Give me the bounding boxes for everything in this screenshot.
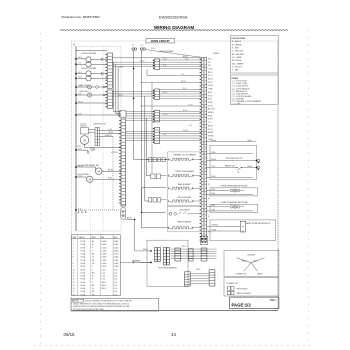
svg-text:5-1605: 5-1605 xyxy=(102,241,107,243)
cooling fan wires xyxy=(76,166,95,168)
pin labels of relay board connector xyxy=(208,58,216,140)
svg-text:5-1605: 5-1605 xyxy=(102,254,107,256)
svg-text:USE ALL WIRES PRIOR TO DISCONN: USE ALL WIRES PRIOR TO DISCONNECTION WHE… xyxy=(73,302,130,305)
svg-text:BR CF: BR CF xyxy=(208,72,213,74)
svg-text:5-1-4: 5-1-4 xyxy=(114,272,118,274)
svg-text:WIRING SHOWN FOR OVENS EQUIPPE: WIRING SHOWN FOR OVENS EQUIPPED AS VIEWE… xyxy=(73,305,130,308)
switch row S1 thermal cutouts xyxy=(146,158,167,162)
svg-text:W N2: W N2 xyxy=(208,99,212,101)
svg-text:GAUGE: GAUGE xyxy=(79,236,84,239)
wire node y115 xyxy=(76,114,121,116)
wires bus to M1 xyxy=(76,58,86,60)
svg-text:W-46: W-46 xyxy=(212,176,216,178)
svg-text:BK-52: BK-52 xyxy=(196,269,201,271)
svg-text:CODES: CODES xyxy=(231,78,238,80)
svg-text:BK-46: BK-46 xyxy=(212,140,217,142)
svg-text:T-46: T-46 xyxy=(212,166,215,168)
ground symbol door motor xyxy=(87,150,89,154)
door motor bottom wire xyxy=(84,144,86,147)
note box xyxy=(71,298,159,311)
svg-text:BK L1: BK L1 xyxy=(208,58,212,60)
svg-text:GY BR: GY BR xyxy=(208,105,214,107)
svg-text:BK-10: BK-10 xyxy=(119,67,123,69)
cooling fan motor M4 xyxy=(95,168,102,175)
connector P4 seg1 xyxy=(153,59,160,69)
page cut dashed border bottom xyxy=(34,345,313,347)
svg-text:GY/BK-10: GY/BK-10 xyxy=(105,135,112,137)
svg-text:OR-10: OR-10 xyxy=(163,114,168,116)
svg-text:5-1605: 5-1605 xyxy=(114,250,119,252)
svg-text:06/16: 06/16 xyxy=(64,332,76,337)
svg-text:BU DM: BU DM xyxy=(208,79,214,81)
top wire to P24 xyxy=(76,50,107,52)
svg-text:5: 5 xyxy=(73,254,74,256)
svg-text:5-1-4: 5-1-4 xyxy=(102,276,106,278)
svg-text:Y TC: Y TC xyxy=(208,122,212,124)
svg-text:CAVITY HOUSING: CAVITY HOUSING xyxy=(236,292,251,295)
svg-text:5-1-4: 5-1-4 xyxy=(114,282,118,284)
junction node bus y=150 xyxy=(75,148,81,150)
terminal pair TP1 xyxy=(132,45,137,50)
svg-text:BR - BROWN: BR - BROWN xyxy=(232,54,244,56)
svg-text:5-1-4: 5-1-4 xyxy=(114,285,118,287)
svg-text:GY-52: GY-52 xyxy=(212,229,217,231)
cooling fan motor M5 xyxy=(87,176,93,182)
top feed wire xyxy=(113,57,202,59)
svg-text:8: 8 xyxy=(73,263,74,265)
pill output wire xyxy=(125,219,135,251)
svg-text:M: M xyxy=(88,76,90,78)
svg-text:P5: P5 xyxy=(208,184,210,186)
pin group labels lower xyxy=(208,184,211,234)
svg-text:W - WHITE: W - WHITE xyxy=(232,44,243,46)
wire bundle B4 left xyxy=(126,132,155,141)
junction node bus y=210 xyxy=(75,208,81,210)
svg-text:M: M xyxy=(238,172,240,174)
relay board connector P1 (main) xyxy=(200,58,207,243)
door latch motor M3 xyxy=(80,136,89,145)
wire bundle B2 P4 to relay board xyxy=(160,90,202,99)
svg-text:OR BK: OR BK xyxy=(208,102,214,104)
bake element xyxy=(172,187,190,189)
wire bundle B3 left xyxy=(126,112,155,121)
junction node bus y=87 xyxy=(75,85,82,87)
svg-text:Y-10: Y-10 xyxy=(189,125,192,127)
svg-text:CONVECTION ELEMENT: CONVECTION ELEMENT xyxy=(175,171,195,173)
base element xyxy=(172,227,190,229)
svg-text:OVEN CIRCUIT: OVEN CIRCUIT xyxy=(151,39,171,43)
svg-text:OR-10: OR-10 xyxy=(108,132,113,134)
bottom bundle lower xyxy=(190,273,209,283)
svg-text:5-1605: 5-1605 xyxy=(114,260,119,262)
svg-text:16 GA: 16 GA xyxy=(81,284,86,287)
svg-text:W-46: W-46 xyxy=(212,152,216,154)
svg-text:OVEN LIGHT: OVEN LIGHT xyxy=(79,85,89,87)
svg-text:BR-10: BR-10 xyxy=(181,81,186,83)
svg-text:BASE ELEMENT: BASE ELEMENT xyxy=(178,220,193,223)
connector P6 seg1 xyxy=(153,110,160,122)
terminal pair TP2 xyxy=(140,45,145,50)
svg-text:GN LS: GN LS xyxy=(208,82,213,84)
lamp aux contact xyxy=(96,86,99,89)
junction node bus y=64.3 xyxy=(75,63,81,65)
svg-text:14: 14 xyxy=(73,282,75,284)
latch wires to connector xyxy=(100,130,121,132)
svg-text:COLOR CODE: COLOR CODE xyxy=(231,38,245,40)
svg-text:18 GA: 18 GA xyxy=(81,249,86,252)
svg-text:BK-46: BK-46 xyxy=(248,166,253,168)
svg-text:BU-10: BU-10 xyxy=(183,110,188,112)
svg-text:BU CONV: BU CONV xyxy=(208,109,216,111)
svg-text:CONVECTION FAN: CONVECTION FAN xyxy=(81,52,97,55)
svg-text:Y-10: Y-10 xyxy=(181,74,184,76)
svg-text:5-1605: 5-1605 xyxy=(114,254,119,256)
svg-text:BAKE ELEMENT: BAKE ELEMENT xyxy=(178,183,191,186)
element box lower xyxy=(168,206,202,232)
svg-text:BK-10: BK-10 xyxy=(183,56,188,58)
wire bundle B2 left feed xyxy=(113,92,155,96)
svg-text:18 GA: 18 GA xyxy=(81,240,86,243)
svg-text:PAGE:1/2: PAGE:1/2 xyxy=(232,303,252,308)
svg-text:18 GA: 18 GA xyxy=(81,278,86,281)
svg-text:NOTE:: NOTE: xyxy=(73,301,79,303)
wire gauge table xyxy=(72,235,121,297)
svg-text:18 GA: 18 GA xyxy=(81,265,86,268)
svg-text:16 GA: 16 GA xyxy=(81,293,86,296)
inline connector CB5 xyxy=(209,270,215,286)
svg-text:GY OL: GY OL xyxy=(208,75,213,77)
connector P24 (left upper) xyxy=(106,53,113,88)
wire node y210 dashed xyxy=(76,209,120,211)
wire node y103 xyxy=(76,102,107,104)
svg-text:BR VH: BR VH xyxy=(208,125,213,127)
svg-text:M: M xyxy=(98,170,100,173)
connector legend box xyxy=(224,278,279,296)
svg-text:PIN HOUSING: PIN HOUSING xyxy=(236,289,248,291)
svg-text:SER-1: SER-1 xyxy=(102,288,107,290)
svg-text:MEAT PROBE RECEPTACLE: MEAT PROBE RECEPTACLE xyxy=(246,222,271,225)
svg-text:BU: BU xyxy=(92,291,94,293)
junction node bus y=78.3 xyxy=(75,77,82,79)
OVEN CIRCUIT title box xyxy=(146,39,175,43)
svg-text:5-1605: 5-1605 xyxy=(102,266,107,268)
convection element xyxy=(172,175,190,177)
connector P4 seg2 xyxy=(153,89,160,99)
svg-text:BK-10: BK-10 xyxy=(127,218,132,220)
svg-text:SER-1: SER-1 xyxy=(102,285,107,287)
svg-text:REV:: REV: xyxy=(270,298,277,302)
svg-text:B-46: B-46 xyxy=(212,205,215,207)
svg-text:Y - YELLOW: Y - YELLOW xyxy=(232,51,243,53)
svg-text:P11: P11 xyxy=(208,232,211,234)
svg-text:C-7: C-7 xyxy=(132,45,135,47)
wire bundle B4 to relay board xyxy=(160,132,202,141)
svg-text:MOTOR: MOTOR xyxy=(81,125,88,127)
lamp wires xyxy=(76,86,88,88)
svg-text:T - TAN: T - TAN xyxy=(232,69,239,72)
top wavy tear line xyxy=(60,29,288,32)
svg-text:Y-10: Y-10 xyxy=(108,129,111,131)
svg-text:5-1605: 5-1605 xyxy=(102,244,107,246)
svg-text:5-1-4: 5-1-4 xyxy=(114,276,118,278)
junction node bus y=167 xyxy=(75,165,82,167)
svg-text:BR: BR xyxy=(92,285,95,287)
svg-text:UNIT MUST BE GROUNDED AT ALL T: UNIT MUST BE GROUNDED AT ALL TIMES. xyxy=(73,308,105,311)
fan circuit box xyxy=(210,145,256,179)
svg-text:R CF2: R CF2 xyxy=(208,95,213,97)
pill connector P13 xyxy=(121,207,126,219)
svg-text:WIRE: WIRE xyxy=(72,237,76,239)
svg-text:GY: GY xyxy=(92,288,94,290)
svg-text:13: 13 xyxy=(73,279,75,281)
svg-text:B - BLACK: B - BLACK xyxy=(232,40,242,43)
svg-text:GN: GN xyxy=(92,294,94,296)
switch row S2 xyxy=(149,198,161,202)
junction node bus y=73.5 xyxy=(75,72,82,74)
connector bubble C-8 xyxy=(91,148,95,151)
relay board connector rung circles xyxy=(203,58,205,241)
lower temperature probe xyxy=(207,201,258,213)
vent heater element xyxy=(172,158,190,160)
dashed drop wire xyxy=(112,137,114,211)
svg-text:V-10: V-10 xyxy=(163,134,166,136)
junction node bus y=103 xyxy=(75,101,82,103)
svg-text:SPST RELAY: SPST RELAY xyxy=(179,209,190,212)
svg-text:R - RED: R - RED xyxy=(232,48,240,50)
svg-text:R-10: R-10 xyxy=(183,88,187,90)
connector J2a xyxy=(163,248,166,266)
svg-text:B-10: B-10 xyxy=(77,146,80,148)
svg-text:18: 18 xyxy=(73,294,75,296)
connector P6 seg2 xyxy=(153,127,160,143)
svg-text:11: 11 xyxy=(73,272,75,274)
svg-text:LOWER TEMPERATURE PROBE: LOWER TEMPERATURE PROBE xyxy=(220,201,248,204)
meat probe receptacle box xyxy=(207,220,276,241)
svg-text:10: 10 xyxy=(73,269,75,271)
connector J1a xyxy=(154,248,157,262)
svg-text:GY-10: GY-10 xyxy=(188,104,193,106)
svg-text:16 GA: 16 GA xyxy=(81,281,86,284)
svg-text:BK: BK xyxy=(92,272,95,274)
svg-text:C-9 - THERMAL CUTOUT BREAKER: C-9 - THERMAL CUTOUT BREAKER xyxy=(232,100,262,103)
svg-text:R SP1: R SP1 xyxy=(208,115,213,117)
svg-text:TIMER: TIMER xyxy=(213,53,219,55)
svg-text:OVEN LIGHT: OVEN LIGHT xyxy=(79,91,89,93)
svg-text:TWO SPEED MOTOR: TWO SPEED MOTOR xyxy=(226,158,244,160)
svg-text:GY: GY xyxy=(92,257,94,259)
legend box xyxy=(224,250,279,276)
svg-text:BK-52: BK-52 xyxy=(143,249,148,251)
inline connector CB1 xyxy=(175,248,181,261)
svg-text:Y: Y xyxy=(92,282,93,284)
svg-text:M: M xyxy=(89,178,91,181)
connector pair left of convection element xyxy=(151,174,161,179)
svg-text:R-46: R-46 xyxy=(212,193,216,195)
svg-text:CONNECTOR: CONNECTOR xyxy=(226,283,238,285)
wires motor to switch bank xyxy=(88,129,95,131)
svg-text:COOLING FAN THERM. SW: COOLING FAN THERM. SW xyxy=(77,164,99,167)
svg-text:CONNECTOR: CONNECTOR xyxy=(235,273,247,275)
ground wire B-52 xyxy=(133,260,152,263)
svg-text:BK FAN: BK FAN xyxy=(208,111,214,114)
wires into bottom box xyxy=(120,249,152,263)
svg-text:GAS: GAS xyxy=(101,236,104,239)
inline connector CB3 xyxy=(201,248,207,261)
svg-text:16 GA: 16 GA xyxy=(81,287,86,290)
svg-text:BK-52: BK-52 xyxy=(242,261,247,263)
svg-text:BROIL ELEMENT: BROIL ELEMENT xyxy=(178,197,191,199)
connector P12 chassis edge xyxy=(119,119,125,206)
svg-text:GN - GREEN: GN - GREEN xyxy=(232,63,244,65)
svg-text:W-46: W-46 xyxy=(248,140,252,142)
svg-text:V: V xyxy=(92,266,94,268)
svg-text:GN: GN xyxy=(92,263,94,265)
svg-text:FAN MOTOR: FAN MOTOR xyxy=(225,164,236,167)
svg-text:LEGEND: LEGEND xyxy=(247,255,255,257)
svg-text:18 GA: 18 GA xyxy=(81,275,86,278)
svg-text:TWO SPEED FAN ASSY: TWO SPEED FAN ASSY xyxy=(158,267,178,270)
svg-text:W-10: W-10 xyxy=(163,58,167,60)
oven lamp L1 xyxy=(88,85,92,89)
svg-text:1: 1 xyxy=(73,241,74,243)
convection fan motor M2 xyxy=(86,71,91,81)
svg-text:P9: P9 xyxy=(208,216,210,218)
svg-text:5-1-4: 5-1-4 xyxy=(102,279,106,281)
svg-text:5-1605: 5-1605 xyxy=(114,241,119,243)
vertical drop wires right of P24 xyxy=(114,62,122,116)
vertical feeder wires xyxy=(133,50,169,228)
svg-text:9: 9 xyxy=(73,266,74,268)
inline connector CB4 xyxy=(185,272,191,286)
svg-text:16: 16 xyxy=(73,288,75,290)
door motor gearbox xyxy=(80,128,88,134)
svg-text:7: 7 xyxy=(73,260,74,262)
svg-text:Y DLB: Y DLB xyxy=(208,68,212,70)
svg-text:R L2: R L2 xyxy=(208,62,211,64)
relay row K2 xyxy=(168,209,201,216)
svg-text:18 GA: 18 GA xyxy=(81,253,86,256)
wire node y150 xyxy=(76,149,88,151)
svg-text:GY/BK-52: GY/BK-52 xyxy=(132,261,139,263)
svg-text:18 GA: 18 GA xyxy=(81,262,86,265)
svg-text:W-52: W-52 xyxy=(253,261,257,263)
capacitor C2 xyxy=(102,72,103,75)
svg-text:T PRB: T PRB xyxy=(208,89,213,91)
svg-text:18 GA: 18 GA xyxy=(81,271,86,274)
svg-text:18 GA: 18 GA xyxy=(81,256,86,259)
svg-text:BK-52: BK-52 xyxy=(182,246,187,248)
svg-text:BU BE1: BU BE1 xyxy=(208,132,214,134)
svg-text:COOLING FAN: COOLING FAN xyxy=(77,173,89,176)
svg-text:BK-10: BK-10 xyxy=(140,60,145,62)
svg-text:GY - GRAY: GY - GRAY xyxy=(232,56,243,59)
svg-text:BK-10: BK-10 xyxy=(163,92,167,94)
svg-text:5-1605: 5-1605 xyxy=(102,247,107,249)
page/rev box xyxy=(230,297,279,309)
svg-text:P8: P8 xyxy=(208,199,210,201)
svg-text:5-1-4: 5-1-4 xyxy=(102,272,106,274)
page cut dashed border right xyxy=(308,30,310,347)
chassis inner dashed divider xyxy=(102,47,104,232)
main schematic border box xyxy=(71,41,73,311)
svg-text:5-1-4: 5-1-4 xyxy=(114,279,118,281)
element box upper xyxy=(168,152,202,206)
svg-text:C-10 - TAB: C-10 - TAB xyxy=(232,103,241,106)
svg-text:5-1605: 5-1605 xyxy=(102,260,107,262)
svg-text:BK-46: BK-46 xyxy=(212,159,217,161)
svg-text:18 GA: 18 GA xyxy=(81,246,86,249)
svg-text:GY-10: GY-10 xyxy=(183,130,188,132)
junction node bus y=177 xyxy=(75,175,82,177)
svg-text:BK HL: BK HL xyxy=(208,92,213,94)
inline connector CB2 xyxy=(189,249,194,261)
wires bus to M2 xyxy=(76,73,86,75)
svg-text:WIRING DIAGRAM: WIRING DIAGRAM xyxy=(154,25,194,30)
svg-text:R-46: R-46 xyxy=(212,209,216,211)
svg-text:W: W xyxy=(92,276,94,278)
svg-text:EW30DS6CRSA: EW30DS6CRSA xyxy=(159,16,188,20)
svg-text:BR: BR xyxy=(92,254,95,256)
component code legend box xyxy=(230,75,278,106)
svg-text:5-1605: 5-1605 xyxy=(102,250,107,252)
svg-text:Y: Y xyxy=(92,250,93,252)
svg-text:M: M xyxy=(88,62,90,64)
broil element xyxy=(172,200,190,202)
bottom bundle upper xyxy=(170,249,216,258)
svg-text:R-10: R-10 xyxy=(163,65,166,67)
svg-text:R: R xyxy=(92,247,94,249)
svg-text:A: A xyxy=(73,42,75,46)
capacitor C1 xyxy=(102,58,103,61)
single wires between bundles xyxy=(141,69,202,174)
svg-text:5-1-4: 5-1-4 xyxy=(114,294,118,296)
svg-text:18 GA: 18 GA xyxy=(81,268,86,271)
svg-text:C-8: C-8 xyxy=(141,45,144,47)
svg-text:W N: W N xyxy=(208,65,211,67)
fan box wires xyxy=(207,152,258,178)
svg-text:17: 17 xyxy=(73,291,75,293)
bottom fan assembly box xyxy=(147,240,188,286)
svg-text:R-10: R-10 xyxy=(108,178,112,180)
svg-text:5-1605: 5-1605 xyxy=(114,244,119,246)
svg-text:GY/W-52: GY/W-52 xyxy=(212,225,219,227)
svg-text:SER-1: SER-1 xyxy=(102,282,107,284)
svg-text:CAVITY: CAVITY xyxy=(257,272,264,275)
svg-text:LATCH MOTOR: LATCH MOTOR xyxy=(94,122,107,125)
connector J1b xyxy=(158,248,161,262)
connector P25 (left lower) xyxy=(106,90,113,108)
wires M1 to connector xyxy=(91,59,101,61)
svg-text:BK-10: BK-10 xyxy=(108,170,113,172)
svg-text:CONVECTION FAN: CONVECTION FAN xyxy=(81,67,97,70)
page cut dashed border left xyxy=(40,33,42,347)
svg-text:5-1605: 5-1605 xyxy=(114,266,119,268)
node A left supply bus xyxy=(73,42,76,231)
fan box terminal squares xyxy=(257,159,259,170)
svg-text:V - VIOLET: V - VIOLET xyxy=(232,66,243,68)
oven lamp L2 xyxy=(87,93,91,97)
svg-text:GROUND: GROUND xyxy=(111,152,119,154)
connector J2b xyxy=(167,248,170,266)
svg-text:5-1605: 5-1605 xyxy=(102,263,107,265)
RELAY BOARD label and leader xyxy=(145,48,200,57)
svg-text:C-8: C-8 xyxy=(92,149,94,151)
svg-text:W SP2: W SP2 xyxy=(208,119,213,121)
junction node bus y=58.8 xyxy=(75,57,82,59)
chassis inner dashed divider 2 xyxy=(89,47,91,232)
wire bundle B1 left feed xyxy=(113,62,155,66)
color code legend box xyxy=(230,36,278,73)
